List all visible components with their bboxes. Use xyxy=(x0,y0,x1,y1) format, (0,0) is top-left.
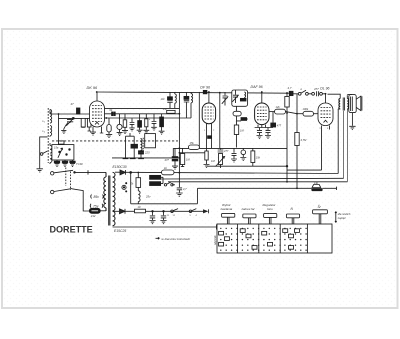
speaker ground xyxy=(349,113,355,130)
key label 3 xyxy=(263,203,277,211)
svg-text:110: 110 xyxy=(161,98,165,101)
key 2 xyxy=(243,214,256,224)
ground left xyxy=(37,169,43,172)
label 85v xyxy=(91,195,104,200)
trimmer T3 xyxy=(70,160,75,166)
contact pin numbers xyxy=(167,215,198,217)
IF2 fixed capacitor xyxy=(240,98,246,101)
key 1 xyxy=(222,213,235,224)
IF can right edge xyxy=(198,92,200,148)
capacitor 225 xyxy=(139,151,151,158)
svg-text:napięć: napięć xyxy=(338,216,347,220)
mid return bus y166 xyxy=(207,165,288,167)
capacitor black mid xyxy=(131,136,138,158)
svg-text:4,7: 4,7 xyxy=(288,86,292,90)
filter choke xyxy=(138,187,151,203)
pin labels DL96 xyxy=(320,128,330,130)
switch bank contacts cell 1 xyxy=(220,228,238,251)
label 7x30 xyxy=(76,162,83,166)
wire secondary to speaker xyxy=(347,95,352,99)
svg-text:225: 225 xyxy=(144,151,150,155)
electrolytic block b xyxy=(150,182,161,186)
ferrite rod antenna xyxy=(48,108,52,163)
svg-text:w kierunku końcówki: w kierunku końcówki xyxy=(162,237,191,241)
grid feed line xyxy=(179,152,204,154)
coil shield box xyxy=(145,134,156,148)
trimmer T1 xyxy=(54,160,59,166)
AVC feed vertical xyxy=(219,92,221,148)
capacitor 477 left xyxy=(165,148,179,169)
svg-text:85v: 85v xyxy=(94,195,100,199)
resistor 100k oval xyxy=(297,107,318,116)
rectifier diode E150C30 xyxy=(120,170,126,175)
contact switch pair xyxy=(164,182,175,186)
electrolytic block a xyxy=(150,175,161,179)
oscillator coil L3 xyxy=(141,138,144,151)
volume potentiometer 1M xyxy=(211,154,225,169)
tap circle xyxy=(122,183,127,192)
resistor 10 box xyxy=(135,205,197,213)
left return vertical xyxy=(125,136,127,158)
label La xyxy=(43,119,45,123)
coupling capacitor 477 pair xyxy=(308,87,325,97)
electrolytic link wires xyxy=(161,177,163,183)
svg-text:15k: 15k xyxy=(256,156,261,160)
power switch contact b xyxy=(51,189,73,194)
grid cap line row xyxy=(173,147,287,149)
resistor 10k box xyxy=(163,108,175,113)
output transformer secondary xyxy=(347,99,348,109)
contact pads cell 2 xyxy=(240,229,257,249)
brand text DORETTE xyxy=(50,224,94,235)
svg-text:włącznik: włącznik xyxy=(214,235,217,245)
series capacitor 4,7 xyxy=(288,86,294,95)
trimmer capacitor C1 xyxy=(64,117,75,129)
bus y178.5 xyxy=(161,177,344,180)
contact pads cell 3 xyxy=(262,231,273,246)
contact pads cell 4 xyxy=(283,229,300,249)
svg-text:15a: 15a xyxy=(54,146,59,150)
key label 5 xyxy=(318,204,322,209)
anode wire to output transformer xyxy=(328,94,341,98)
low voltage switch a xyxy=(171,209,178,213)
key label 1 xyxy=(220,203,233,211)
IF transformer 2 can xyxy=(232,90,248,106)
svg-text:DAF 96: DAF 96 xyxy=(251,85,263,89)
fuse 212 xyxy=(89,208,106,218)
secondary low row wire xyxy=(113,210,119,212)
jack output wire xyxy=(322,187,336,190)
cluster link xyxy=(126,133,135,136)
resistor R1 xyxy=(81,118,85,127)
resistor 1M af xyxy=(180,148,190,166)
label 75v xyxy=(90,204,103,209)
tube DF96 xyxy=(202,92,215,128)
resistor R3 xyxy=(122,114,128,134)
capacitor 477 top of pot xyxy=(218,148,229,153)
label E15C25 xyxy=(114,229,126,233)
svg-text:47: 47 xyxy=(71,102,75,106)
contact pads cell 1 xyxy=(219,231,230,246)
resistor 1k oval xyxy=(162,166,175,175)
junction dots xyxy=(58,91,327,212)
tube DK96 xyxy=(90,92,105,135)
bus y188.3 xyxy=(198,187,312,189)
screen dropping resistor xyxy=(285,92,289,182)
label DAF 96 xyxy=(251,85,263,89)
detector plate wire xyxy=(269,111,275,113)
capacitor 477 af xyxy=(271,112,282,128)
capacitor C5 dark xyxy=(137,114,143,133)
svg-text:E15C25: E15C25 xyxy=(114,229,126,233)
switch bank contacts cell 4 xyxy=(284,228,307,251)
right vertical from secondary xyxy=(343,111,345,179)
output transformer core xyxy=(343,98,344,111)
mixer bus xyxy=(105,113,180,115)
svg-text:L₂: L₂ xyxy=(43,129,45,133)
svg-text:DK 96: DK 96 xyxy=(87,86,98,90)
resistor 15k oval 2 xyxy=(188,141,199,149)
lamp jack circle xyxy=(240,148,246,160)
trimmer ground xyxy=(61,130,66,133)
series capacitor 04 xyxy=(110,109,116,115)
IF2 coil xyxy=(244,92,245,98)
filament bypass capacitor xyxy=(208,136,212,139)
filter capacitor 4,7u xyxy=(176,158,187,196)
capacitor C160 dark xyxy=(159,114,165,134)
capacitor C10 xyxy=(265,128,271,139)
wire switch b battery loop xyxy=(72,189,89,211)
switch bank outline xyxy=(217,224,332,253)
IF1 secondary trimmer xyxy=(184,92,189,118)
screen feed vertical xyxy=(211,128,213,149)
speaker cone xyxy=(356,96,362,110)
wire antenna to DK96 grid xyxy=(50,113,90,115)
power transformer core xyxy=(109,176,110,226)
IF1 primary coil xyxy=(175,92,177,108)
wire DK96 anode bus xyxy=(105,107,180,109)
resistor 4,7M xyxy=(295,133,307,189)
tone switch xyxy=(293,88,308,95)
coupling coil under IF1 xyxy=(117,114,123,136)
svg-text:7×30: 7×30 xyxy=(76,162,83,166)
label DF 96 xyxy=(200,85,210,89)
pin labels DAF96 xyxy=(257,130,268,132)
svg-text:4,7: 4,7 xyxy=(183,187,187,191)
right bus y170 xyxy=(287,169,322,171)
IF1 tie vertical xyxy=(178,92,180,158)
rectifier bus y172 xyxy=(115,172,338,173)
AF grid vertical xyxy=(296,94,298,133)
low voltage switch b xyxy=(189,209,196,213)
capacitor C4 xyxy=(129,118,134,130)
pin labels DF96 xyxy=(204,130,215,132)
svg-text:100k: 100k xyxy=(303,107,309,111)
svg-text:zakres fal: zakres fal xyxy=(241,207,255,211)
key label 2 xyxy=(241,207,255,211)
switch bank contacts cell 2 xyxy=(242,228,260,251)
small coupling box xyxy=(59,141,65,144)
resistor 15k vertical xyxy=(251,148,261,166)
electrolytic C6 xyxy=(149,114,157,131)
antenna switch contact xyxy=(40,151,47,155)
svg-text:12k: 12k xyxy=(276,105,281,109)
svg-text:DL 96: DL 96 xyxy=(320,86,329,90)
IF2 trimmer xyxy=(232,90,238,103)
svg-text:477: 477 xyxy=(277,124,282,128)
capacitor C9 xyxy=(257,128,263,139)
label DK 96 xyxy=(87,86,98,90)
top bus line 1 xyxy=(97,92,290,93)
output transformer primary xyxy=(339,99,340,109)
svg-text:140: 140 xyxy=(314,182,319,185)
headphone jack xyxy=(312,182,322,191)
side note left of bank xyxy=(214,235,217,245)
grid sub bus xyxy=(59,117,90,119)
oscillator coil on rod xyxy=(50,143,52,164)
low voltage output line xyxy=(113,225,217,230)
grid return resistor xyxy=(204,128,210,168)
bus y181.8 xyxy=(168,181,348,183)
capacitor C11 xyxy=(231,148,237,162)
resistor 1M vertical xyxy=(234,125,244,148)
svg-text:E150C30: E150C30 xyxy=(113,165,127,169)
tube DL96 xyxy=(318,94,333,170)
trimmer T2 xyxy=(62,160,67,166)
key label 4 xyxy=(291,207,294,211)
resistor R2 xyxy=(87,118,91,131)
svg-text:tonu: tonu xyxy=(267,207,273,211)
tube DAF96 xyxy=(255,92,269,128)
svg-text:dla niskich: dla niskich xyxy=(338,212,351,216)
band switch box xyxy=(52,145,74,160)
DAF cathode bus xyxy=(255,127,273,129)
output arrow xyxy=(196,209,209,213)
svg-text:212: 212 xyxy=(90,214,96,218)
return corner vertical xyxy=(197,188,199,203)
resistor 2k vertical xyxy=(130,172,141,187)
key 4 xyxy=(286,214,299,224)
IF1 secondary coil xyxy=(191,92,193,118)
svg-text:DF 96: DF 96 xyxy=(200,85,210,89)
IF2 lower capacitor xyxy=(237,116,249,125)
svg-text:477: 477 xyxy=(224,149,229,153)
chassis rail xyxy=(112,148,179,158)
key 5 xyxy=(313,210,328,224)
capacitor C12 xyxy=(149,211,155,224)
wire switch a to transformer xyxy=(75,171,106,173)
label Lo xyxy=(43,129,45,133)
series blob capacitor xyxy=(203,90,207,93)
svg-text:15k: 15k xyxy=(190,141,195,145)
IF1 primary trimmer xyxy=(161,92,173,108)
switch bank contacts cell 3 xyxy=(263,228,281,251)
svg-text:zasilania: zasilania xyxy=(220,207,233,211)
key 3 xyxy=(264,214,277,224)
wire vertical to band switch xyxy=(58,114,60,145)
wire to AF node xyxy=(286,112,298,114)
capacitor C13 xyxy=(160,211,166,224)
resistor 10k oval xyxy=(275,105,286,114)
label E150C30 xyxy=(113,165,127,169)
svg-text:DORETTE: DORETTE xyxy=(50,224,94,235)
rectifier diode E15C25 xyxy=(120,209,135,214)
note text kierunku xyxy=(156,237,191,241)
svg-text:4,7M: 4,7M xyxy=(301,138,308,142)
switch bank dividers xyxy=(238,224,308,253)
IF2 lower coil oval xyxy=(233,106,241,116)
svg-text:477: 477 xyxy=(165,158,170,162)
capacitor 47 xyxy=(71,102,80,114)
resistor R4 xyxy=(143,114,149,134)
grid trimmer capacitor xyxy=(222,92,228,106)
label DL 96 xyxy=(320,86,329,90)
power transformer low winding xyxy=(113,211,115,225)
power switch contact a xyxy=(51,170,76,175)
power transformer secondary xyxy=(113,172,115,210)
junction plus mark xyxy=(87,170,89,174)
low return line xyxy=(130,172,198,204)
right vertical from speaker xyxy=(346,109,348,182)
AGC dashed line xyxy=(52,140,178,142)
anode load resistor DK96 xyxy=(106,118,112,138)
side note dla niskich xyxy=(335,212,351,223)
svg-text:477: 477 xyxy=(314,87,319,91)
svg-text:L₁: L₁ xyxy=(43,119,45,123)
svg-text:25v: 25v xyxy=(145,194,151,198)
switch gang dashed link xyxy=(66,168,71,191)
speaker body xyxy=(349,95,356,113)
wire DK96 screen bus xyxy=(105,117,192,119)
shield wire left xyxy=(40,137,48,169)
right vertical from primary xyxy=(338,109,340,174)
power transformer primary xyxy=(104,172,106,211)
